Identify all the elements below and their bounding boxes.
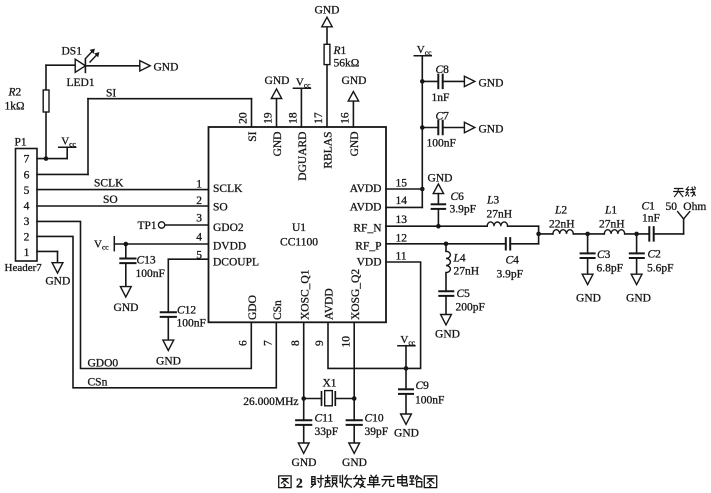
svg-text:1nF: 1nF [642,213,660,225]
label Header7 [5,262,43,274]
ground (C11) [298,443,309,453]
label GND (C12) [156,356,181,368]
label C13 [137,255,156,267]
pin number 3 (GDO2) [0,0,1,1]
wire LED1 to GND [85,65,139,67]
svg-text:SCLK: SCLK [94,178,124,190]
pin name DVDD [213,241,246,253]
label C4 [506,255,520,267]
label L2 [554,205,567,217]
svg-text:SCLK: SCLK [213,183,243,195]
pin number 13 [396,214,408,226]
svg-text:L1: L1 [604,205,617,217]
label C12 [177,305,196,317]
pin name GDO2 [213,222,244,234]
svg-text:27nH: 27nH [487,209,513,221]
pin number 10 [340,336,352,348]
value 50 Ohm [666,201,707,213]
wire C8 right [443,80,465,82]
svg-text:20: 20 [238,112,250,124]
node C3 junction [585,232,590,237]
capacitor C4 [506,238,510,249]
svg-text:GND: GND [576,293,601,305]
svg-text:SO: SO [213,202,228,214]
wire TP1 to pin3 GDO2 [165,224,209,226]
capacitor C7 [438,121,442,135]
svg-text:13: 13 [396,214,408,226]
node X1 right junction [352,396,357,401]
svg-text:1kΩ: 1kΩ [5,101,25,113]
label GND (C8) [479,77,504,89]
label GND (C10) [342,457,367,469]
wire X1 right [335,398,354,400]
label L1 [604,205,617,217]
svg-text:4: 4 [196,232,202,244]
svg-text:18: 18 [288,112,300,124]
label C11 [315,413,334,425]
wire CSn net [37,236,276,387]
value 5.6pF (C2) [647,263,674,275]
svg-text:C4: C4 [506,255,520,267]
ground (P1 pin1) [52,263,63,273]
svg-text:C2: C2 [648,249,662,261]
pin name GND (19) [272,132,284,157]
label C9 [416,380,430,392]
label C6 [451,191,465,203]
svg-text:DGUARD: DGUARD [297,132,309,181]
node pin15 Vcc junction [420,187,425,192]
pin name DCOUPL [213,257,259,269]
label P1 [15,137,27,149]
wire L3 to balun node [508,226,539,244]
wire pin17 to R1 [326,28,328,127]
svg-text:GND: GND [428,173,453,185]
wire C3 top [587,234,589,254]
wire pin19 to GND [276,98,278,127]
svg-text:C13: C13 [137,255,156,267]
node balun junction [536,232,541,237]
pin number 5 [196,250,202,262]
wire DVDD net [114,243,208,245]
pin name CSn (7) [272,300,284,320]
svg-text:5: 5 [196,250,202,262]
value 22nH (L2) [549,219,575,231]
svg-text:27nH: 27nH [599,219,625,231]
pin name XOSC_Q1 (8) [299,269,311,320]
svg-text:GND: GND [342,75,367,87]
value 100nF (C7) [427,138,456,150]
wire AVDD pin15 [386,188,422,190]
svg-text:CSn: CSn [88,377,108,389]
svg-text:GDO2: GDO2 [213,222,244,234]
pin name RBLAS (17) [323,132,335,169]
svg-text:CC1100: CC1100 [280,237,318,249]
svg-text:14: 14 [396,195,408,207]
label DS1 [62,46,83,58]
pin name RF_P [355,241,381,253]
label GND (pin16) [342,75,367,87]
wire L1 to C2 node [625,233,650,235]
antenna 50 Ohm [678,212,690,219]
pin name DGUARD (18) [297,132,309,181]
power Vcc (rail) [414,44,432,57]
pin number 7 [263,340,275,346]
wire Vcc rail [421,56,423,189]
svg-text:GND: GND [394,428,419,440]
pin name AVDD 14 [350,202,382,214]
svg-text:7: 7 [263,340,275,346]
svg-text:19: 19 [263,112,275,124]
svg-text:X1: X1 [323,378,337,390]
svg-text:12: 12 [396,232,408,244]
svg-text:LED1: LED1 [67,77,95,89]
label GND (C6) [428,173,453,185]
svg-text:1nF: 1nF [432,92,450,104]
pin number 14 [396,195,408,207]
ground (C5) [441,315,452,325]
label GND (C11) [292,457,317,469]
svg-text:22nH: 22nH [549,219,575,231]
wire L2 to C3 node [573,233,604,235]
value 100nF (C13) [136,268,165,280]
svg-text:16: 16 [340,112,352,124]
capacitor C3 [581,253,595,258]
label GND (C3) [576,293,601,305]
svg-text:33pF: 33pF [315,426,339,438]
ground (pin16) [348,92,358,102]
pin number 3 [196,213,202,225]
svg-text:GND: GND [626,293,651,305]
svg-text:RF_N: RF_N [353,223,382,235]
label R2 [8,87,22,99]
svg-text:GND: GND [342,457,367,469]
crystal X1 [322,391,336,406]
value 6.8pF (C3) [597,263,624,275]
label SCLK [94,178,124,190]
node C8 junction [420,79,425,84]
wire R2 rail [46,65,75,158]
capacitor C11 [296,420,311,425]
power Vcc (P1 pin7) [59,136,77,159]
svg-text:1: 1 [196,179,202,191]
svg-text:C7: C7 [436,111,450,123]
node C13 junction [124,242,129,247]
svg-text:GND: GND [349,132,361,157]
svg-text:6.8pF: 6.8pF [597,263,624,275]
ground (C2) [631,274,642,284]
pin number 19 [263,112,275,124]
wire X1 left [304,398,322,400]
label C2 [648,249,662,261]
svg-text:2: 2 [24,232,30,244]
pin number 4 [196,232,202,244]
wire SO net [37,205,209,207]
wire C7 left [422,127,438,129]
pin name SCLK [213,183,243,195]
wire C10 bottom [353,425,355,443]
svg-text:6: 6 [238,340,250,346]
value 200pF (C5) [456,302,485,314]
value 1k&#937; [5,101,25,113]
value 56k&#937; [334,58,360,70]
pin name AVDD (9) [324,288,336,320]
svg-text:AVDD: AVDD [350,183,382,195]
ground (C7) [464,122,474,132]
svg-text:R1: R1 [333,45,347,57]
capacitor C1 [649,227,653,241]
pin name GDO (6) [247,295,259,320]
wire C9 bottom [405,394,407,414]
svg-text:GND: GND [292,457,317,469]
svg-text:39pF: 39pF [365,426,389,438]
svg-text:C12: C12 [177,305,196,317]
svg-text:DCOUPL: DCOUPL [213,257,259,269]
svg-text:7: 7 [24,154,30,166]
value 3.9pF (C4) [497,269,524,281]
pin name XOSG_Q2 (10) [350,269,362,320]
pin number 6 [238,340,250,346]
svg-text:C5: C5 [457,288,471,300]
ground (C6) [433,184,443,204]
value 27nH (L3) [487,209,513,221]
svg-text:2: 2 [196,195,202,207]
wire pin8 XOSC_Q1 [303,322,305,398]
svg-text:2: 2 [296,476,303,491]
svg-text:3: 3 [24,216,30,228]
label C10 [365,413,384,425]
svg-text:GND: GND [265,75,290,87]
svg-text:L4: L4 [453,253,466,265]
svg-text:C3: C3 [597,249,611,261]
svg-text:GDO: GDO [247,295,259,320]
svg-text:Ohm: Ohm [683,201,706,213]
svg-text:200pF: 200pF [456,302,485,314]
label L4 [453,253,466,265]
test point TP1 [158,222,164,228]
wire C2 top [636,234,638,254]
wire P1 pin1 to ground [37,251,58,262]
node RF_N/C6 junction [436,224,441,229]
wire C9 top [405,368,407,389]
pin name SO [213,202,228,214]
pin number 20 [238,112,250,124]
svg-text:100nF: 100nF [136,268,165,280]
ground (C13) [120,287,131,297]
wire AVDD pin14 [386,189,422,207]
wire C11 top [303,399,305,421]
node C2 junction [634,232,639,237]
svg-text:Header7: Header7 [5,262,43,274]
label GDO0 [88,358,119,370]
svg-text:R2: R2 [8,87,22,99]
svg-text:3: 3 [196,213,202,225]
connector P1 Header7 [16,149,38,262]
label R1 [333,45,347,57]
label GND (P1 pin1) [45,276,70,288]
pin name RF_N [353,223,382,235]
svg-text:3.9pF: 3.9pF [450,204,477,216]
resistor R1 [324,44,330,64]
pin number 16 [340,112,352,124]
svg-text:11: 11 [396,251,407,263]
label L3 [486,195,499,207]
pin name AVDD 15 [350,183,382,195]
node C9 junction [404,366,409,371]
svg-text:GND: GND [435,329,460,341]
capacitor C9 [399,389,413,394]
svg-text:AVDD: AVDD [324,288,336,320]
svg-text:L2: L2 [554,205,567,217]
wire C7 right [443,127,465,129]
wire SCLK net [37,189,209,191]
svg-text:SI: SI [247,131,259,141]
node L4 junction [444,242,449,247]
caption 图 2 射频收发单元电路图 [279,475,437,491]
wire C8 left [422,80,438,82]
label GND (pin19) [265,75,290,87]
value 100nF (C12) [177,318,206,330]
capacitor C6 [432,204,446,209]
svg-text:4: 4 [24,201,30,213]
wire VDD pin11 loop [328,262,421,368]
svg-text:DVDD: DVDD [213,241,246,253]
pin number 18 [288,112,300,124]
label C7 [436,111,450,123]
wire C13 bottom [125,263,127,286]
svg-text:56kΩ: 56kΩ [334,58,360,70]
svg-text:26.000MHz: 26.000MHz [243,396,298,408]
value 1nF (C1) [642,213,660,225]
svg-text:27nH: 27nH [454,266,480,278]
wire C10 top [353,399,355,421]
svg-text:SO: SO [103,194,118,206]
pin number 2 [196,195,202,207]
svg-text:XOSG_Q2: XOSG_Q2 [350,269,362,320]
wire C2 bottom [636,258,638,274]
inductor L2 [553,230,573,234]
wire pin10 XOSG_Q2 [353,322,355,398]
label GND (C7) [479,123,504,135]
label CSn [88,377,108,389]
svg-text:8: 8 [290,340,302,346]
wire SI net [37,99,252,175]
svg-text:GND: GND [45,276,70,288]
diode LED1 DS1 [75,59,85,72]
label SO [103,194,118,206]
wire balun to L2 [539,233,553,235]
svg-text:5: 5 [24,185,30,197]
pin name SI (20) [247,131,259,141]
label X1 [323,378,337,390]
ground (C8) [464,76,474,86]
inductor L3 [487,222,507,226]
ground (C12) [163,340,174,350]
label GND (C2) [626,293,651,305]
svg-text:GND: GND [479,77,504,89]
svg-text:C6: C6 [451,191,465,203]
wire L4 to C5 [445,273,447,292]
wire P1 pin7 to Vcc [37,158,67,160]
power Vcc (DGUARD pin18) [293,77,311,90]
svg-text:9: 9 [314,340,326,346]
label GND (LED1) [154,62,179,74]
node pin7/R2 junction [44,156,49,161]
inductor L1 [604,230,624,234]
wire RF_P pin12 [386,243,506,245]
ground (C9) [401,414,412,424]
value 3.9pF (C6) [450,204,477,216]
svg-text:RBLAS: RBLAS [323,132,335,169]
wire C12 bottom [167,317,169,340]
label CC1100 [280,237,318,249]
label LED1 [67,77,95,89]
inductor L4 [446,244,450,273]
ground (C3) [582,274,593,284]
svg-text:CSn: CSn [272,300,284,320]
wire C11 bottom [303,425,305,443]
LED light arrows [86,49,100,62]
capacitor C13 [120,259,135,264]
capacitor C5 [439,291,453,296]
wire C13 top [125,244,127,259]
svg-text:TP1: TP1 [138,220,157,232]
svg-text:GND: GND [156,356,181,368]
svg-text:5.6pF: 5.6pF [647,263,674,275]
wire C5 bottom [445,296,447,315]
svg-text:SI: SI [106,88,116,100]
svg-text:15: 15 [396,178,408,190]
wire GDO0 net [37,221,251,368]
capacitor C12 [161,312,176,317]
wire pin16 to GND [352,101,354,127]
ground (C10) [349,443,360,453]
svg-text:U1: U1 [292,222,306,234]
wire C3 bottom [587,258,589,274]
svg-text:6: 6 [24,170,30,182]
svg-text:3.9pF: 3.9pF [497,269,524,281]
pin number 15 [396,178,408,190]
svg-text:GND: GND [479,123,504,135]
pin name VDD [357,257,382,269]
value 1nF (C8) [432,92,450,104]
svg-text:C10: C10 [365,413,384,425]
label GND (C9) [394,428,419,440]
power Vcc (VDD net) [398,334,416,368]
svg-text:C1: C1 [642,201,656,213]
svg-text:100nF: 100nF [427,138,456,150]
svg-text:GND: GND [315,5,340,17]
resistor R2 [43,90,49,112]
label C5 [457,288,471,300]
svg-text:C11: C11 [315,413,334,425]
pin number 9 [314,340,326,346]
svg-text:GDO0: GDO0 [88,358,119,370]
value 27nH (L4) [454,266,480,278]
wire C4 to balun node [510,243,538,245]
pin number 12 [396,232,408,244]
value 27nH (L1) [599,219,625,231]
ground (pin19) [271,89,281,99]
label U1 [292,222,306,234]
value 26.000MHz [243,396,298,408]
label GND (C5) [435,329,460,341]
ground (R1) [322,17,332,27]
svg-text:GND: GND [114,302,139,314]
wire RF_N pin13 [386,225,487,227]
value 39pF (C10) [365,426,389,438]
ground (LED1) [140,61,150,71]
power Vcc (DVDD) [94,237,114,252]
